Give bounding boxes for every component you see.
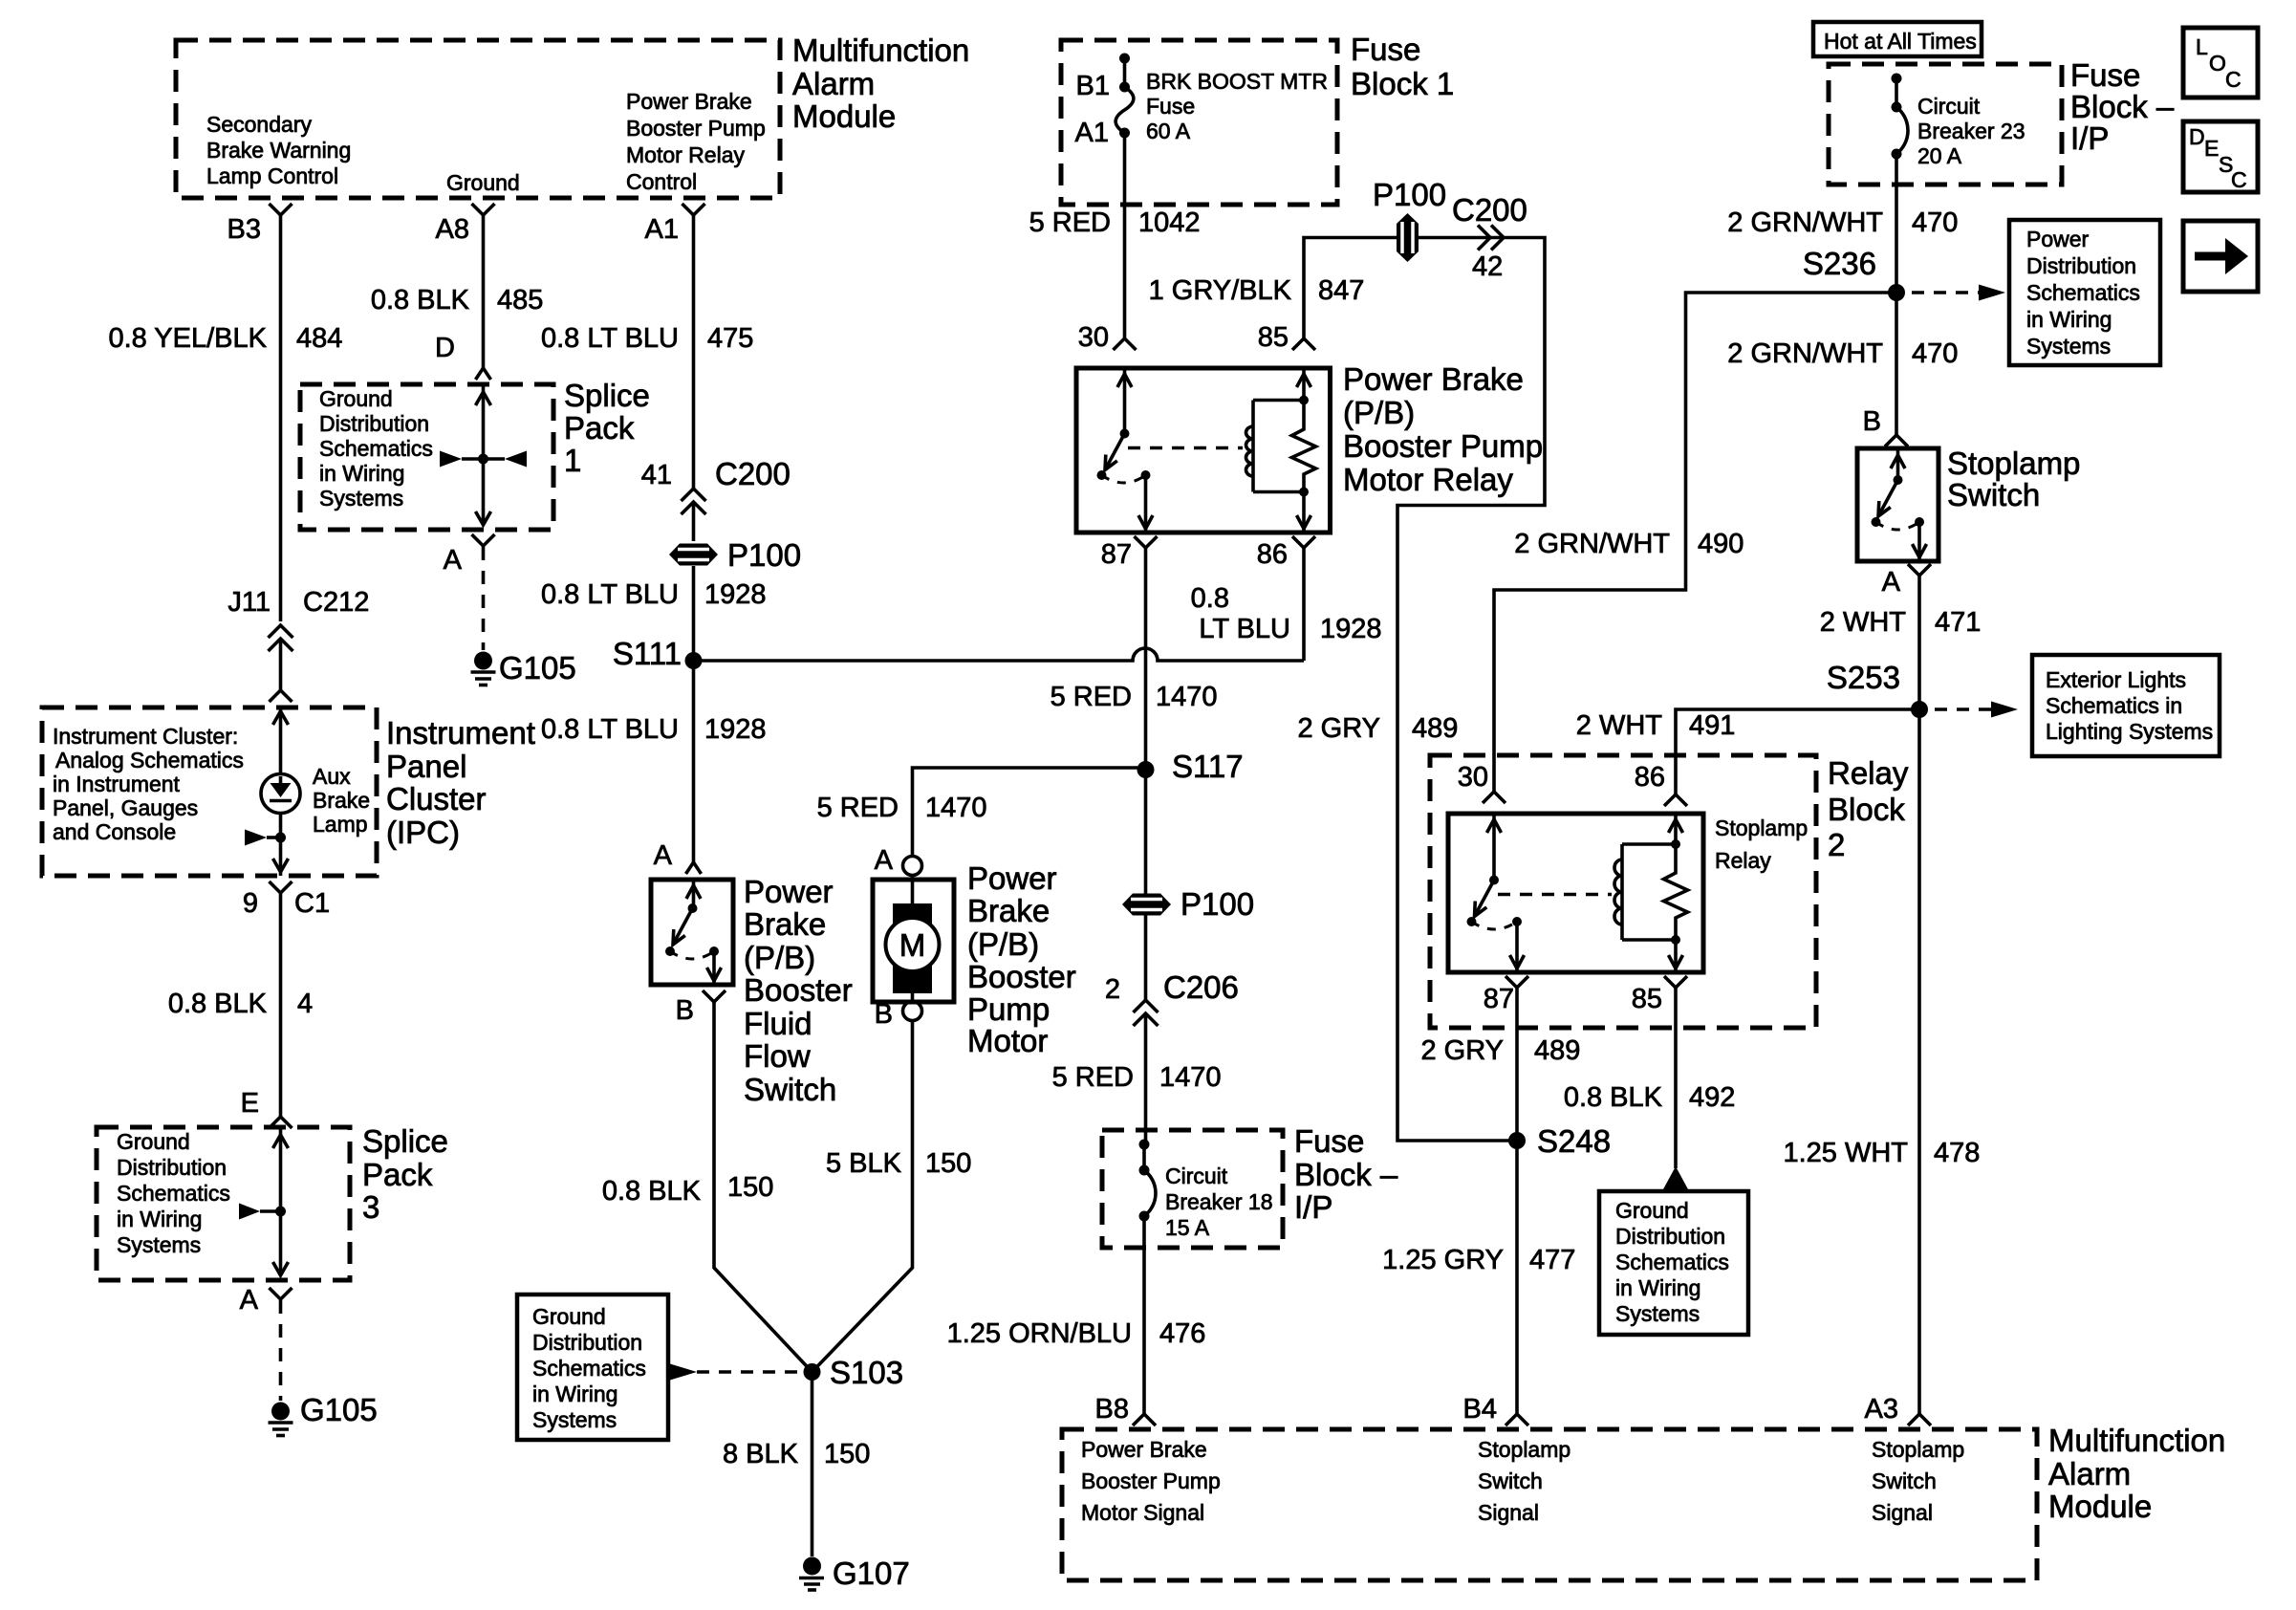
svg-text:Analog Schematics: Analog Schematics (55, 748, 244, 772)
svg-text:1470: 1470 (1156, 682, 1218, 712)
svg-text:2: 2 (1828, 827, 1845, 862)
switch: P/B Booster Fluid Flow Switch (651, 880, 733, 985)
svg-text:Booster Pump: Booster Pump (1343, 428, 1543, 464)
wire relay1 pin85 up, over C200-42, down and to S248 (1304, 238, 1545, 1142)
svg-text:476: 476 (1159, 1318, 1205, 1349)
title: Power Brake (P/B) Booster Pump Motor (967, 860, 1076, 1058)
wire S103 to G107 (8 BLK 150) (811, 1372, 814, 1556)
svg-text:G107: G107 (833, 1556, 910, 1591)
wire to P100 (692, 502, 696, 541)
svg-text:Pack: Pack (564, 410, 635, 446)
svg-text:Breaker 23: Breaker 23 (1917, 119, 2025, 143)
wire B3 vertical (0.8 YEL/BLK 484) (279, 215, 283, 621)
svg-text:Fuse: Fuse (1351, 32, 1420, 67)
title: Power Brake (P/B) Booster Fluid Flow Switch (744, 874, 853, 1107)
svg-text:B3: B3 (227, 214, 261, 245)
svg-text:P100: P100 (727, 537, 801, 573)
svg-text:3: 3 (362, 1189, 379, 1225)
svg-text:A3: A3 (1865, 1394, 1898, 1425)
svg-text:2 GRY: 2 GRY (1297, 713, 1380, 744)
svg-text:C212: C212 (303, 587, 369, 618)
ground triangle to Ground Distribution box (1663, 1166, 1688, 1189)
module box: Fuse Block 1 (1061, 40, 1337, 205)
svg-text:A1: A1 (1075, 118, 1109, 148)
pin A below splice pack 1 (472, 534, 495, 546)
svg-text:470: 470 (1912, 207, 1958, 238)
svg-text:Control: Control (626, 169, 697, 194)
svg-text:Schematics: Schematics (532, 1356, 646, 1381)
wire A down to S253 (2 WHT 471) (1917, 576, 1921, 709)
svg-text:Block: Block (1828, 792, 1905, 827)
svg-text:Pack: Pack (362, 1157, 433, 1192)
svg-text:87: 87 (1101, 539, 1132, 570)
pin 9 / C1 (270, 881, 292, 893)
svg-text:E: E (241, 1088, 259, 1119)
svg-text:Splice: Splice (362, 1123, 448, 1159)
svg-text:2 GRN/WHT: 2 GRN/WHT (1514, 529, 1670, 559)
svg-text:Schematics: Schematics (2026, 280, 2140, 305)
svg-text:150: 150 (727, 1172, 773, 1203)
svg-text:in Wiring: in Wiring (319, 461, 404, 486)
svg-text:489: 489 (1534, 1035, 1580, 1066)
svg-text:Multifunction: Multifunction (2048, 1423, 2225, 1458)
relay box: Stoplamp Relay (1448, 814, 1703, 972)
svg-text:Secondary: Secondary (206, 112, 312, 137)
svg-text:Lighting Systems: Lighting Systems (2046, 719, 2213, 744)
svg-text:A: A (875, 845, 894, 876)
wire P100 to C206 (5 RED 1470) (1144, 916, 1148, 1001)
svg-text:150: 150 (925, 1148, 971, 1179)
svg-text:P100: P100 (1180, 886, 1254, 922)
svg-text:Alarm: Alarm (2048, 1456, 2131, 1491)
splice arrows + dot (S-pack1) (440, 451, 527, 468)
svg-text:Power: Power (744, 874, 834, 909)
svg-text:1.25 WHT: 1.25 WHT (1783, 1138, 1908, 1168)
svg-text:(P/B): (P/B) (744, 940, 815, 975)
wire 87 down to S117 (5 RED 1470) (1144, 548, 1148, 904)
wire A1 (0.8 LT BLU 475) (692, 215, 696, 490)
module box: Fuse Block I/P (circuit breaker 23) (1829, 64, 2062, 185)
svg-text:15 A: 15 A (1165, 1215, 1210, 1240)
svg-text:Switch: Switch (1947, 477, 2040, 512)
svg-text:Panel, Gauges: Panel, Gauges (53, 795, 198, 820)
svg-text:M: M (899, 927, 926, 963)
svg-text:Motor Relay: Motor Relay (626, 142, 745, 167)
svg-text:Fuse: Fuse (2070, 57, 2140, 93)
svg-text:Ground: Ground (117, 1129, 190, 1154)
svg-text:Systems: Systems (1615, 1301, 1700, 1326)
svg-text:2: 2 (1105, 974, 1120, 1005)
svg-text:Systems: Systems (532, 1407, 617, 1432)
wire C206 to breaker (5 RED 1470) (1144, 1013, 1148, 1144)
module box: Instrument Panel Cluster (IPC) (42, 707, 377, 876)
svg-text:Power Brake: Power Brake (1081, 1437, 1207, 1462)
svg-text:85: 85 (1632, 984, 1662, 1014)
breaker: Circuit Breaker 23 20 A (1892, 74, 1909, 294)
ground G105 (upper) (471, 650, 576, 685)
svg-text:Circuit: Circuit (1917, 94, 1981, 119)
splice pack 3 box (97, 1127, 350, 1280)
arrowhead down above IPC bottom (273, 859, 289, 872)
label: Power Brake Booster Pump Motor Relay Control (626, 89, 766, 194)
svg-text:A1: A1 (645, 214, 679, 245)
label: Stoplamp Switch Signal (B4) (1478, 1437, 1570, 1525)
svg-text:2 GRN/WHT: 2 GRN/WHT (1727, 207, 1883, 238)
label: Circuit Breaker 18 15 A (1165, 1164, 1273, 1240)
svg-text:Stoplamp: Stoplamp (1872, 1437, 1964, 1462)
svg-text:2 WHT: 2 WHT (1820, 607, 1907, 638)
junction S117 (1137, 761, 1155, 778)
title: Multifunction Alarm Module (bottom) (2048, 1423, 2225, 1524)
svg-text:Block –: Block – (1294, 1157, 1398, 1192)
label: Stoplamp Switch Signal (A3) (1872, 1437, 1964, 1525)
label: Aux Brake Lamp (313, 764, 370, 837)
wire below lamp with tap arrow (279, 814, 283, 877)
svg-text:Relay: Relay (1828, 755, 1909, 791)
svg-text:Brake: Brake (313, 788, 370, 813)
svg-text:Power: Power (967, 860, 1057, 896)
svg-text:Distribution: Distribution (1615, 1224, 1725, 1249)
module box: Fuse Block I/P (circuit breaker 18) (1102, 1130, 1283, 1248)
svg-text:42: 42 (1472, 251, 1503, 282)
reference box: Ground Distribution Schematics in Wiring Systems (right) (1599, 1191, 1748, 1335)
svg-text:I/P: I/P (1294, 1189, 1332, 1225)
title: Instrument Panel Cluster (IPC) (386, 715, 535, 850)
svg-text:B8: B8 (1095, 1394, 1129, 1425)
wire A8 (0.8 BLK 485) (482, 215, 486, 368)
wire inside IPC (279, 707, 283, 774)
svg-text:Brake: Brake (744, 906, 826, 942)
junction S103 (804, 1363, 821, 1381)
svg-text:Booster Pump: Booster Pump (1081, 1469, 1221, 1493)
wire 86 down to S111 line (0.8 LT BLU 1928) (1302, 548, 1306, 661)
svg-text:J11: J11 (227, 587, 271, 618)
svg-text:86: 86 (1635, 762, 1665, 793)
svg-text:S103: S103 (830, 1355, 903, 1390)
svg-text:Switch: Switch (1478, 1469, 1543, 1493)
wire through splice pack 3 (279, 1127, 283, 1275)
dashed arrow from box to S103 (670, 1364, 805, 1381)
svg-text:(P/B): (P/B) (967, 926, 1039, 962)
lamp: Aux Brake Lamp (261, 774, 300, 814)
switch: Stoplamp Switch (1857, 448, 1939, 561)
svg-text:Circuit: Circuit (1165, 1164, 1228, 1188)
wire P100 to S111 (0.8 LT BLU 1928) (692, 566, 696, 661)
svg-text:Schematics in: Schematics in (2046, 693, 2182, 718)
svg-text:Stoplamp: Stoplamp (1947, 446, 2080, 481)
svg-text:Motor: Motor (967, 1023, 1048, 1058)
splice pack 1 box (300, 384, 553, 530)
svg-text:Systems: Systems (2026, 334, 2111, 359)
wire motor A up and right to S117 (5 RED 1470) (913, 768, 1146, 857)
reference box: Power Distribution Schematics in Wiring Systems (2009, 220, 2160, 365)
svg-text:30: 30 (1458, 762, 1488, 793)
wire S111 down to fluid switch A (0.8 LT BLU 1928) (692, 661, 696, 862)
svg-text:in Wiring: in Wiring (117, 1207, 202, 1231)
svg-text:Ground: Ground (532, 1304, 606, 1329)
svg-text:475: 475 (707, 323, 753, 354)
dashed wire to G105 (upper) (482, 547, 486, 650)
svg-text:and Console: and Console (53, 819, 176, 844)
svg-text:2 WHT: 2 WHT (1576, 710, 1663, 741)
svg-text:LT BLU: LT BLU (1199, 614, 1290, 644)
svg-text:0.8 BLK: 0.8 BLK (371, 285, 470, 315)
svg-text:in Wiring: in Wiring (1615, 1275, 1700, 1300)
tap arrow into wire (dot + left triangle) (245, 830, 286, 846)
legend box: arrow (2183, 221, 2258, 292)
svg-text:Power Brake: Power Brake (626, 89, 752, 114)
relay box: Power Brake (P/B) Booster Pump Motor Relay (1076, 368, 1331, 533)
svg-text:2 GRN/WHT: 2 GRN/WHT (1727, 338, 1883, 369)
svg-text:492: 492 (1689, 1082, 1735, 1113)
svg-text:847: 847 (1318, 275, 1364, 306)
svg-text:8 BLK: 8 BLK (723, 1439, 799, 1469)
title: Relay Block 2 (1828, 755, 1909, 862)
svg-text:1.25 ORN/BLU: 1.25 ORN/BLU (947, 1318, 1132, 1349)
ground G107 (799, 1556, 910, 1591)
svg-text:478: 478 (1934, 1138, 1980, 1168)
svg-text:Signal: Signal (1872, 1500, 1933, 1525)
svg-text:60 A: 60 A (1146, 119, 1191, 143)
grommet P100 (top, vertical) (1373, 177, 1446, 262)
splice arrow + dot (S-pack3) (239, 1204, 286, 1220)
box: Hot at All Times (1813, 22, 1982, 56)
fuse: BRK BOOST MTR Fuse 60 A (1116, 54, 1134, 206)
svg-text:Module: Module (792, 98, 896, 134)
pin B fluid flow switch (703, 990, 726, 1002)
svg-text:Booster: Booster (967, 959, 1076, 994)
label: Ground Distribution Schematics in Wiring Systems (splice pack 3) (117, 1129, 230, 1257)
svg-text:0.8 BLK: 0.8 BLK (1564, 1082, 1663, 1113)
svg-text:in Instrument: in Instrument (53, 772, 181, 796)
svg-text:41: 41 (641, 460, 672, 490)
svg-text:Stoplamp: Stoplamp (1478, 1437, 1570, 1462)
svg-text:484: 484 (296, 323, 342, 354)
module box: Relay Block 2 (1430, 755, 1816, 1028)
title: Fuse Block - I/P (1294, 1123, 1398, 1225)
svg-text:C: C (2225, 67, 2242, 92)
svg-text:1928: 1928 (704, 579, 767, 610)
svg-text:Systems: Systems (117, 1232, 201, 1257)
svg-text:Flow: Flow (744, 1038, 811, 1074)
label: BRK BOOST MTR Fuse 60 A (1146, 69, 1328, 143)
svg-text:2 GRY: 2 GRY (1420, 1035, 1504, 1066)
svg-text:in Wiring: in Wiring (532, 1382, 617, 1406)
svg-text:5 RED: 5 RED (1051, 682, 1132, 712)
reference box: Exterior Lights Schematics in Lighting Systems (2032, 655, 2220, 756)
svg-text:490: 490 (1698, 529, 1744, 559)
label: Instrument Cluster: Analog Schematics in Instrument Panel, Gauges and Console (53, 724, 244, 844)
title: Fuse Block - I/P (top right) (2070, 57, 2175, 156)
ground G105 (lower) (269, 1392, 378, 1436)
svg-text:Booster Pump: Booster Pump (626, 116, 766, 141)
svg-text:A: A (654, 840, 673, 871)
dashed wire to G105 (279, 1300, 283, 1401)
pin A below splice pack 3 (270, 1288, 292, 1299)
svg-text:0.8 YEL/BLK: 0.8 YEL/BLK (108, 323, 267, 354)
junction S111 (685, 652, 703, 669)
svg-text:C: C (2231, 167, 2247, 192)
dashed arrow S236 to Power Distribution box (1912, 285, 2005, 301)
svg-text:1928: 1928 (704, 714, 767, 745)
grommet P100 (left) (669, 537, 801, 573)
wire B down (0.8 BLK 150) and diagonal to S103 (714, 1002, 812, 1372)
svg-text:Distribution: Distribution (2026, 253, 2136, 278)
svg-text:I/P: I/P (2070, 120, 2109, 156)
title: Stoplamp Switch (1947, 446, 2080, 512)
svg-text:B4: B4 (1463, 1394, 1497, 1425)
module box: Multifunction Alarm Module (bottom) (1062, 1429, 2037, 1580)
svg-text:Stoplamp: Stoplamp (1715, 816, 1808, 840)
title: Multifunction Alarm Module (792, 33, 969, 134)
svg-text:C200: C200 (1452, 192, 1527, 228)
svg-text:S236: S236 (1803, 246, 1876, 281)
svg-text:B: B (1863, 406, 1881, 437)
svg-text:Panel: Panel (386, 749, 466, 784)
svg-text:Ground: Ground (446, 170, 520, 195)
svg-text:477: 477 (1529, 1245, 1575, 1275)
svg-text:E: E (2204, 136, 2219, 161)
svg-text:5 RED: 5 RED (1052, 1062, 1134, 1093)
svg-text:0.8: 0.8 (1191, 583, 1229, 614)
svg-text:20 A: 20 A (1917, 143, 1962, 168)
svg-text:5 RED: 5 RED (817, 793, 899, 823)
label: Stoplamp Relay (1715, 816, 1808, 873)
label: Power Brake Booster Pump Motor Signal (1081, 1437, 1221, 1525)
svg-text:1042: 1042 (1138, 207, 1201, 238)
svg-text:(IPC): (IPC) (386, 815, 460, 850)
wire S253 left and down to relay2 pin 86 (2 WHT 491) (1676, 709, 1919, 794)
legend box: DESC (2183, 121, 2258, 192)
svg-text:Switch: Switch (744, 1072, 836, 1107)
svg-text:Relay: Relay (1715, 848, 1771, 873)
motor: P/B Booster Pump Motor (873, 880, 954, 1002)
svg-text:Brake: Brake (967, 893, 1050, 928)
svg-text:489: 489 (1412, 713, 1458, 744)
wire fuse to relay 30 (5 RED 1042) (1123, 205, 1127, 338)
svg-text:C1: C1 (294, 888, 330, 919)
wire 87 down through S248 to B4 (2 GRY 489) (1515, 988, 1519, 1414)
legend box: LOC (2183, 28, 2258, 98)
svg-text:A: A (240, 1285, 259, 1316)
svg-text:Distribution: Distribution (532, 1330, 642, 1355)
svg-text:Fuse: Fuse (1294, 1123, 1364, 1159)
title: Splice Pack 1 (564, 378, 650, 478)
svg-text:Hot at All Times: Hot at All Times (1824, 29, 1977, 54)
svg-text:Signal: Signal (1478, 1500, 1539, 1525)
svg-text:G105: G105 (499, 650, 576, 685)
wire S253 down to A3 (1.25 WHT 478) (1917, 709, 1921, 1414)
svg-text:Distribution: Distribution (117, 1155, 227, 1180)
svg-text:1470: 1470 (1159, 1062, 1222, 1093)
title: Splice Pack 3 (362, 1123, 448, 1225)
title: Fuse Block 1 (1351, 32, 1454, 101)
svg-text:L: L (2196, 34, 2208, 59)
svg-text:1928: 1928 (1320, 614, 1382, 644)
svg-text:Ground: Ground (319, 386, 393, 411)
pin A stoplamp switch (1908, 564, 1931, 576)
svg-text:Alarm: Alarm (792, 66, 875, 101)
svg-text:0.8 LT BLU: 0.8 LT BLU (541, 579, 679, 610)
svg-text:9: 9 (243, 888, 258, 919)
svg-text:A: A (444, 545, 463, 576)
breaker: Circuit Breaker 18 15 A (1139, 1140, 1157, 1415)
svg-text:Module: Module (2048, 1489, 2152, 1524)
svg-text:86: 86 (1257, 539, 1288, 570)
svg-text:5 BLK: 5 BLK (826, 1148, 902, 1179)
module box: Multifunction Alarm Module (top) (176, 40, 780, 198)
svg-text:O: O (2209, 51, 2226, 76)
svg-text:Aux: Aux (313, 764, 351, 789)
wire S236 left and down to 490 corner (1494, 293, 1896, 792)
svg-text:Brake Warning: Brake Warning (206, 138, 351, 163)
grommet P100 (middle) (1122, 886, 1254, 922)
svg-text:Cluster: Cluster (386, 781, 487, 816)
svg-text:1470: 1470 (925, 793, 987, 823)
svg-text:(P/B): (P/B) (1343, 395, 1415, 430)
svg-text:BRK BOOST MTR: BRK BOOST MTR (1146, 69, 1328, 94)
svg-text:1: 1 (564, 443, 581, 478)
svg-text:C200: C200 (715, 456, 791, 491)
svg-text:85: 85 (1258, 322, 1289, 353)
svg-text:S248: S248 (1537, 1123, 1611, 1159)
svg-text:1 GRY/BLK: 1 GRY/BLK (1149, 275, 1292, 306)
svg-text:Instrument Cluster:: Instrument Cluster: (53, 724, 238, 749)
wire S236 down to stoplamp switch B (2 GRN/WHT 470) (1895, 293, 1898, 435)
svg-text:Instrument: Instrument (386, 715, 535, 751)
svg-text:150: 150 (824, 1439, 870, 1469)
svg-text:5 RED: 5 RED (1029, 207, 1111, 238)
svg-text:Schematics: Schematics (319, 436, 433, 461)
svg-text:G105: G105 (300, 1392, 378, 1427)
svg-text:87: 87 (1484, 984, 1514, 1014)
svg-text:Fuse: Fuse (1146, 94, 1195, 119)
wire to IPC box (279, 639, 283, 690)
svg-text:0.8 BLK: 0.8 BLK (602, 1176, 702, 1207)
label: Ground Distribution Schematics in Wiring Systems (splice pack 1) (319, 386, 433, 511)
svg-text:Pump: Pump (967, 991, 1050, 1027)
svg-text:0.8 LT BLU: 0.8 LT BLU (541, 714, 679, 745)
svg-text:Distribution: Distribution (319, 411, 429, 436)
svg-text:S117: S117 (1172, 749, 1244, 784)
svg-text:471: 471 (1935, 607, 1981, 638)
svg-text:Power: Power (2026, 227, 2090, 251)
svg-text:Splice: Splice (564, 378, 650, 413)
svg-text:4: 4 (297, 989, 313, 1019)
label: Circuit Breaker 23 20 A (1917, 94, 2025, 168)
wire 0.8 BLK 4 (279, 893, 283, 1117)
svg-text:B: B (875, 999, 893, 1030)
svg-text:Motor Relay: Motor Relay (1343, 462, 1513, 497)
wire through splice pack 1 (482, 384, 486, 525)
svg-text:B: B (676, 995, 694, 1026)
svg-text:0.8 LT BLU: 0.8 LT BLU (541, 323, 679, 354)
svg-text:in Wiring: in Wiring (2026, 307, 2112, 332)
svg-text:B1: B1 (1076, 71, 1110, 101)
svg-text:Fluid: Fluid (744, 1006, 812, 1041)
label: Secondary Brake Warning Lamp Control (206, 112, 351, 188)
svg-text:Ground: Ground (1615, 1198, 1689, 1223)
svg-text:Multifunction: Multifunction (792, 33, 969, 68)
svg-text:Power Brake: Power Brake (1343, 361, 1524, 397)
svg-text:491: 491 (1689, 710, 1735, 741)
svg-text:Schematics: Schematics (117, 1181, 230, 1206)
svg-text:S111: S111 (613, 636, 682, 671)
svg-text:0.8 BLK: 0.8 BLK (168, 989, 268, 1019)
svg-text:Lamp Control: Lamp Control (206, 163, 338, 188)
title: Power Brake (P/B) Booster Pump Motor Relay (1343, 361, 1543, 497)
svg-text:Switch: Switch (1872, 1469, 1937, 1493)
